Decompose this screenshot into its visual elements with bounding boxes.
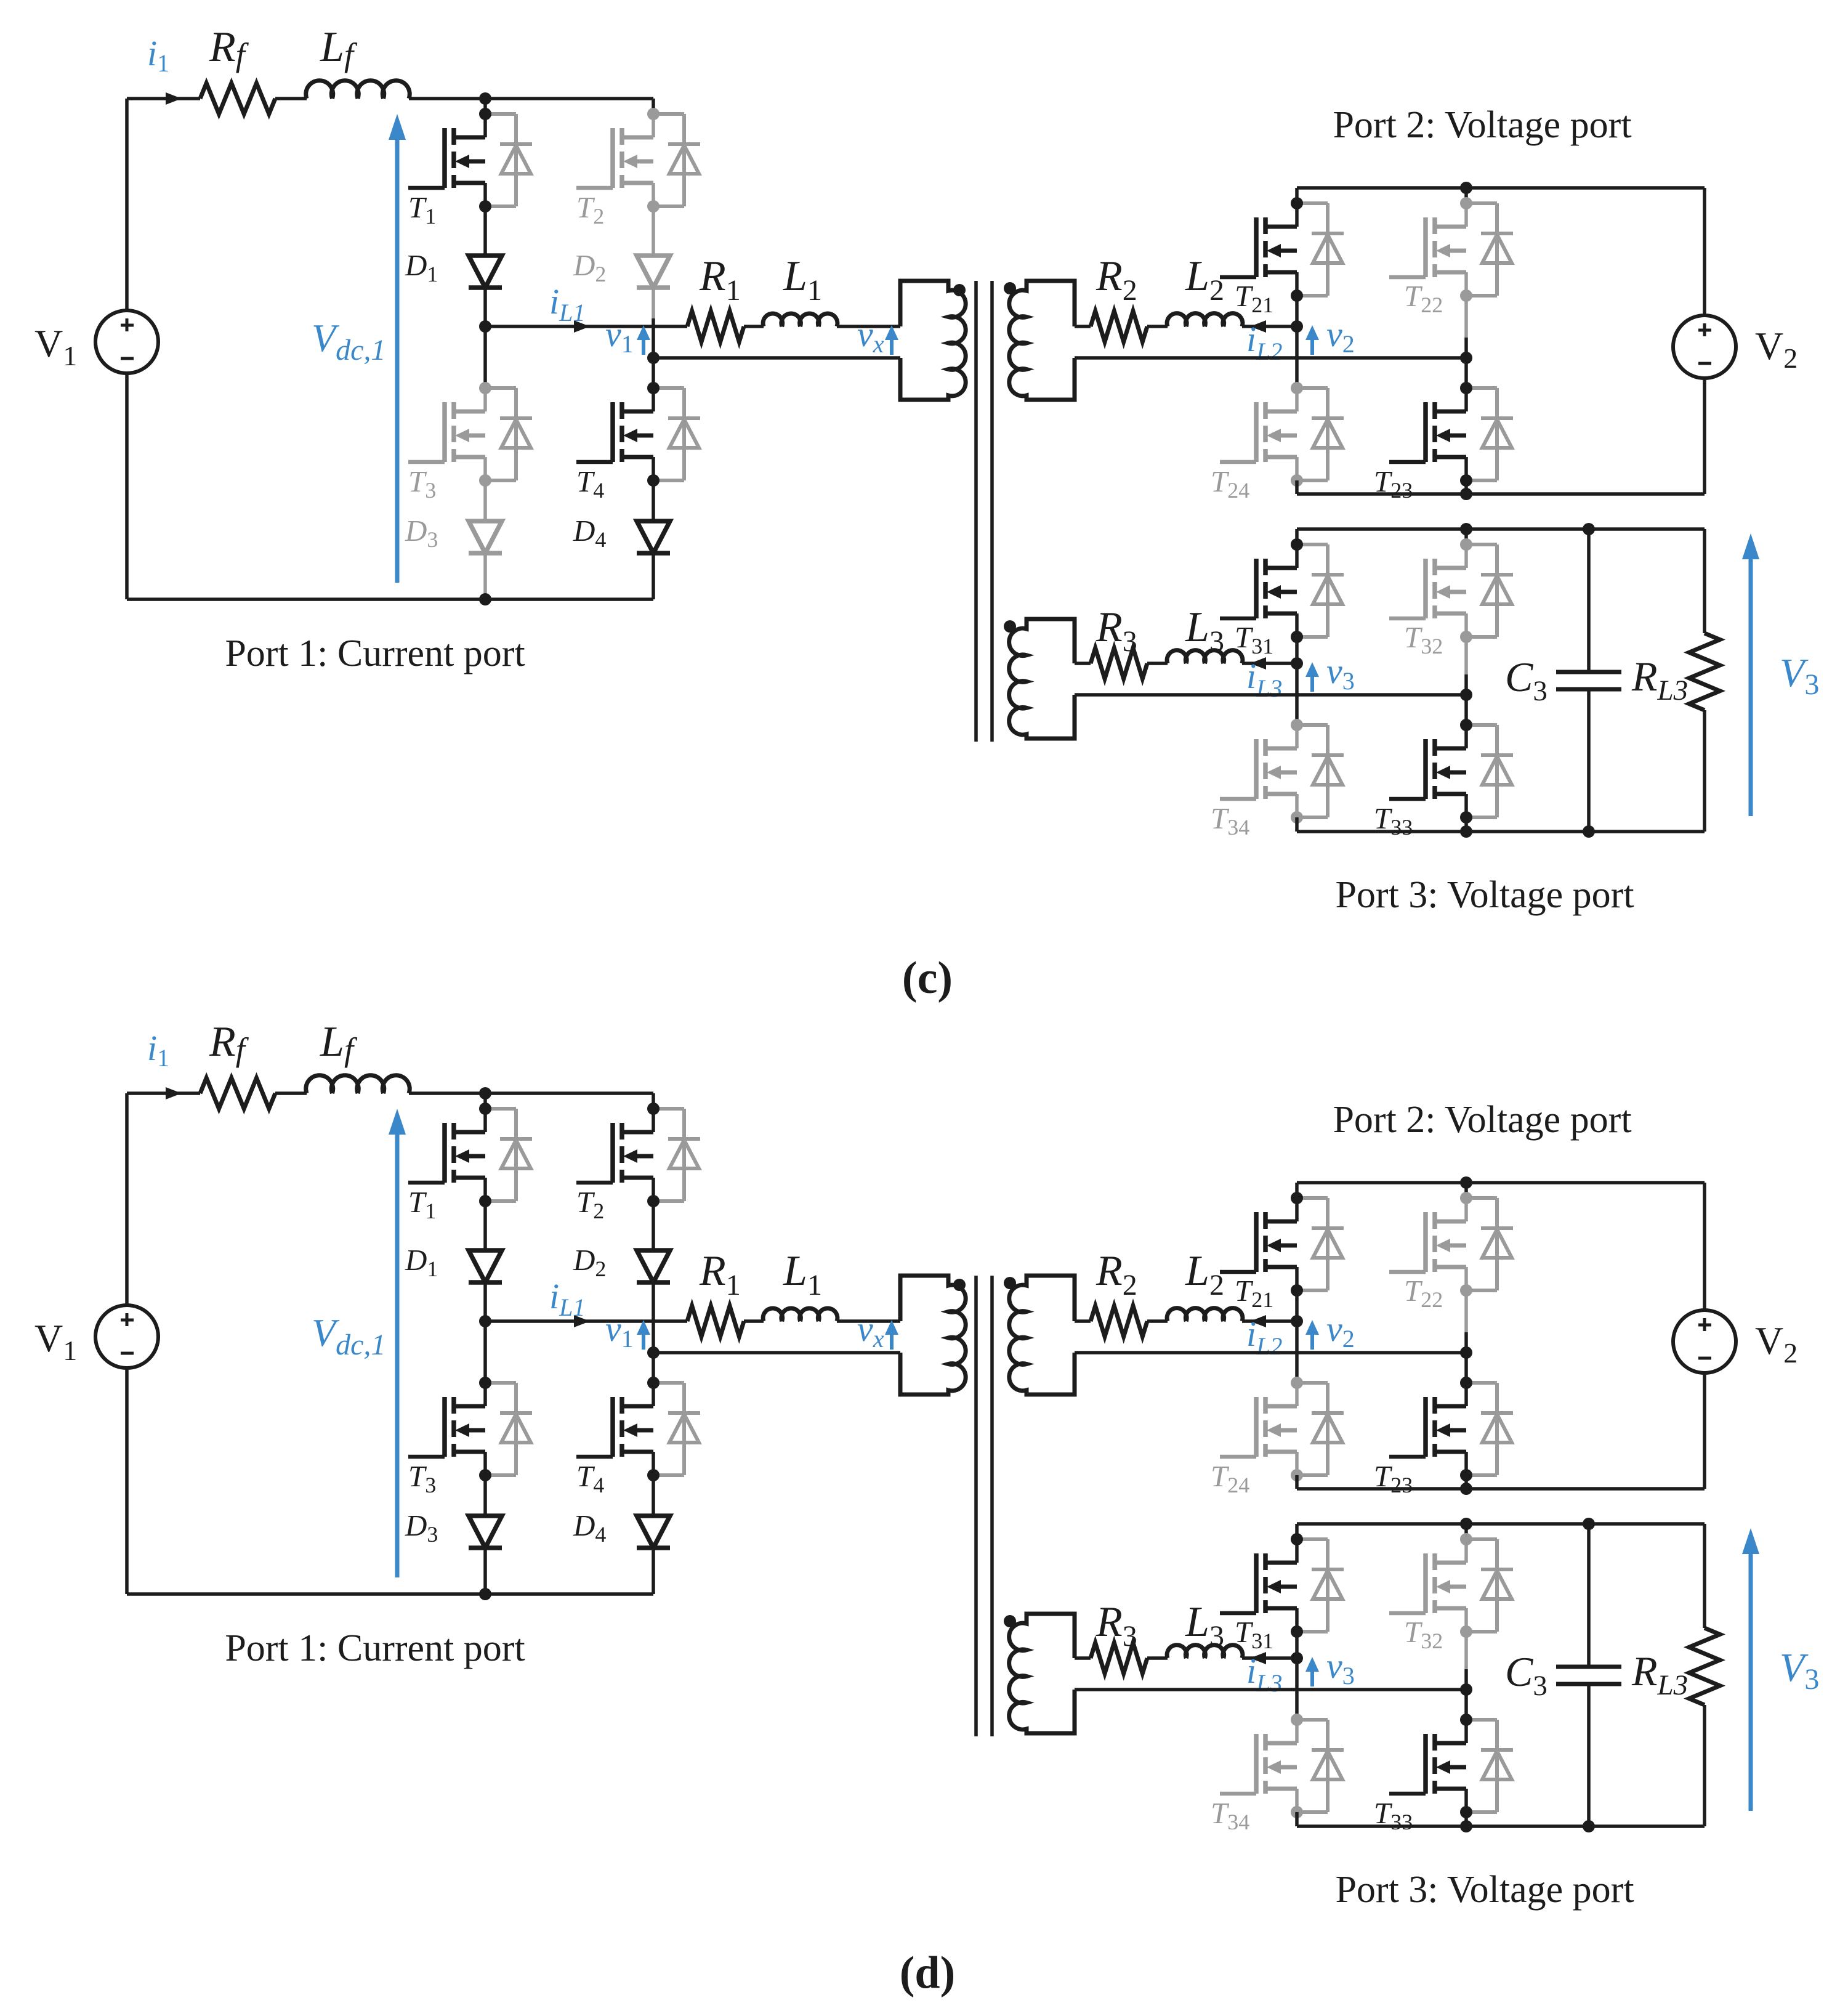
diode D1 c	[469, 256, 502, 288]
node bottom rail / C3 (c)	[1583, 825, 1595, 838]
wire T1 source to D1 (c)	[483, 206, 487, 256]
wire V2 branch top (c)	[1703, 188, 1706, 315]
svg-text:Port 3: Voltage port: Port 3: Voltage port	[1335, 874, 1634, 916]
wire V1 to bottom rail (d)	[125, 1368, 129, 1594]
node top rail / C3 (c)	[1583, 523, 1595, 535]
wire node iL3 to T34 (c)	[1295, 663, 1299, 725]
wire top rail port1 (d)	[127, 1091, 200, 1095]
secondary 2 polarity dot (d)	[1004, 1277, 1016, 1289]
resistor Rf (d)	[200, 1078, 275, 1109]
wire leg2 top lead (d)	[652, 1093, 655, 1109]
voltage arrow v3 (c)	[1310, 674, 1314, 692]
secondary 3 polarity dot (d)	[1004, 1615, 1016, 1627]
wire T23 source to bottom rail (d)	[1464, 1475, 1468, 1489]
voltage arrow v1 (d)	[642, 1332, 645, 1350]
node top rail / leg1 (d)	[479, 1087, 491, 1099]
node iL2 junction (c)	[1291, 320, 1303, 333]
node bottom rail / leg T33 (d)	[1460, 1820, 1472, 1832]
wire node v1 to T4 (d)	[652, 1353, 655, 1383]
wire D2 to node v1 (c)	[652, 288, 655, 318]
current arrow iL1 (d)	[574, 1315, 590, 1327]
wire leg2 top lead (c)	[652, 99, 655, 114]
capacitor C3 (c)	[1556, 529, 1621, 832]
diode D4 c	[637, 521, 670, 553]
wire node iL2 to T24 (c)	[1295, 326, 1299, 388]
voltage arrow vx (c)	[890, 338, 894, 355]
transistor T32 d	[1389, 1533, 1513, 1638]
transistor T1 d	[408, 1103, 532, 1207]
capacitor C3 (d)	[1556, 1524, 1621, 1826]
voltage source V1 (d)	[95, 1305, 158, 1368]
wire node A to T3 (c)	[483, 326, 487, 388]
wire T31 source to node iL3 (d)	[1295, 1632, 1299, 1658]
transistor T32 c	[1389, 538, 1513, 643]
resistor RL3 (c)	[1689, 529, 1720, 832]
wire top rail port2 (d)	[1297, 1181, 1705, 1184]
wire node v1 to T4 (c)	[652, 358, 655, 388]
diode D4 d	[637, 1516, 670, 1548]
transistor T3 c	[408, 382, 532, 487]
wire T32 top lead (d)	[1464, 1524, 1468, 1539]
transistor T2 c	[576, 108, 700, 213]
svg-text:Port 2: Voltage port: Port 2: Voltage port	[1333, 1099, 1631, 1141]
resistor R3 (d)	[1091, 1643, 1147, 1674]
wire V1 to top rail (d)	[125, 1093, 129, 1305]
transistor T3 d	[408, 1377, 532, 1481]
wire v1 node to transformer return (c)	[653, 356, 900, 360]
transformer secondary winding 2 (c)	[1009, 281, 1075, 400]
node bottom rail / leg1 (c)	[479, 593, 491, 605]
inductor L3 (d)	[1167, 1645, 1243, 1658]
current arrow i1 (c)	[166, 92, 182, 105]
node top rail / leg T32 (c)	[1460, 523, 1472, 535]
svg-text:Port 1: Current port: Port 1: Current port	[225, 1627, 525, 1669]
node top rail / C3 (d)	[1583, 1518, 1595, 1530]
transistor T23 d	[1389, 1377, 1513, 1481]
wire bottom rail port1 (d)	[127, 1592, 653, 1596]
node v1 (d)	[647, 1346, 660, 1359]
node v2 junction (d)	[1460, 1346, 1472, 1359]
wire V2 branch bottom (d)	[1703, 1373, 1706, 1489]
inductor L1 (d)	[763, 1308, 837, 1321]
wire node A to T3 (d)	[483, 1321, 487, 1383]
transistor T24 c	[1220, 382, 1344, 487]
transistor T31 c	[1220, 538, 1344, 643]
current arrow iL2 (d)	[1250, 1315, 1266, 1327]
wire node iL3 to T34 (d)	[1295, 1658, 1299, 1720]
diode D3 d	[469, 1516, 502, 1548]
wire iL1 node A to R1 (d)	[485, 1319, 687, 1323]
voltage arrow Vdc,1 (c)	[395, 137, 400, 583]
wire winding3 return to leg T32 (d)	[1075, 1688, 1466, 1691]
resistor R1 (d)	[687, 1306, 744, 1337]
wire T1 source to D1 (d)	[483, 1201, 487, 1250]
wire T4 source to D4 (c)	[652, 480, 655, 521]
secondary 2 polarity dot (c)	[1004, 282, 1016, 294]
inductor L2 (d)	[1167, 1308, 1243, 1321]
node v1 (c)	[647, 352, 660, 364]
wire bottom rail port1 (c)	[127, 597, 653, 601]
voltage source V2 (d)	[1673, 1310, 1736, 1373]
primary polarity dot (d)	[953, 1279, 966, 1291]
wire top rail port3 (d)	[1297, 1522, 1705, 1526]
resistor R3 (c)	[1091, 648, 1147, 679]
inductor Lf (c)	[306, 81, 410, 99]
inductor L1 (c)	[763, 314, 837, 326]
wire T22 top lead (c)	[1464, 188, 1468, 203]
node bottom rail / leg T23 (d)	[1460, 1483, 1472, 1495]
wire bottom rail port2 (d)	[1297, 1487, 1705, 1491]
node bottom rail / C3 (d)	[1583, 1820, 1595, 1832]
diode D3 c	[469, 521, 502, 553]
resistor R2 (c)	[1091, 311, 1147, 342]
diode D2 d	[637, 1250, 670, 1282]
transformer secondary winding 3 (c)	[1009, 619, 1075, 739]
node v2 junction (c)	[1460, 352, 1472, 364]
voltage arrow Vdc,1 (d)	[395, 1132, 400, 1577]
node bottom rail / leg T33 (c)	[1460, 825, 1472, 838]
resistor RL3 (d)	[1689, 1524, 1720, 1826]
svg-text:Port 3: Voltage port: Port 3: Voltage port	[1335, 1869, 1634, 1911]
transformer core (c)	[974, 281, 978, 742]
voltage arrow v2 (d)	[1310, 1332, 1314, 1350]
wire bottom rail port3 (c)	[1297, 830, 1705, 833]
svg-text:(c): (c)	[902, 953, 953, 1003]
wire winding2 to R2 (c)	[1075, 325, 1091, 328]
voltage arrow V3 (d)	[1749, 1552, 1753, 1811]
wire T32 top lead (c)	[1464, 529, 1468, 544]
wire L1 to transformer (c)	[837, 325, 900, 328]
wire winding3 to R3 (c)	[1075, 662, 1091, 665]
secondary 3 polarity dot (c)	[1004, 620, 1016, 633]
wire L3 to leg T31 (d)	[1242, 1656, 1297, 1660]
node iL3 junction (d)	[1291, 1652, 1303, 1664]
wire T34 source to bottom rail (c)	[1295, 817, 1299, 832]
inductor Lf (d)	[306, 1075, 410, 1093]
diode D1 d	[469, 1250, 502, 1282]
wire winding2 return to leg T22 (d)	[1075, 1351, 1466, 1354]
wire bottom rail port2 (c)	[1297, 492, 1705, 496]
transistor T22 d	[1389, 1192, 1513, 1297]
current arrow iL3 (d)	[1250, 1652, 1266, 1664]
current arrow iL1 (c)	[574, 320, 590, 333]
voltage arrow v2 (c)	[1310, 338, 1314, 355]
wire node iL2 to T24 (d)	[1295, 1321, 1299, 1383]
wire T33 source to bottom rail (d)	[1464, 1812, 1468, 1826]
transistor T2 d	[576, 1103, 700, 1207]
wire bottom rail port3 (d)	[1297, 1824, 1705, 1828]
wire D3 to bottom rail (d)	[483, 1547, 487, 1594]
wire winding2 return to leg T22 (c)	[1075, 356, 1466, 360]
wire leg1 top lead (c)	[483, 99, 487, 114]
wire node v3 to T33 (d)	[1464, 1690, 1468, 1720]
wire T22 top lead (d)	[1464, 1183, 1468, 1198]
transistor T33 c	[1389, 719, 1513, 824]
transistor T4 c	[576, 382, 700, 487]
voltage arrow V3 (c)	[1749, 557, 1753, 816]
wire T32 source to node v3 (d)	[1464, 1632, 1468, 1669]
transformer primary winding (c)	[900, 281, 966, 400]
wire T3 source to D3 (d)	[483, 1475, 487, 1516]
wire T31 top lead (d)	[1295, 1524, 1299, 1539]
wire T2 source to D2 (c)	[652, 206, 655, 256]
wire D4 to bottom rail (d)	[652, 1547, 655, 1594]
wire v1 node to transformer return (d)	[653, 1351, 900, 1354]
node A leg1 midpoint (d)	[479, 1315, 491, 1327]
node A leg1 midpoint (c)	[479, 320, 491, 333]
transformer secondary winding 2 (d)	[1009, 1276, 1075, 1395]
wire T33 source to bottom rail (c)	[1464, 817, 1468, 832]
wire T21 top lead (c)	[1295, 188, 1299, 203]
wire iL1 node A to R1 (c)	[485, 325, 687, 328]
wire T21 source to node iL2 (d)	[1295, 1290, 1299, 1321]
transistor T31 d	[1220, 1533, 1344, 1638]
wire D2 to node v1 (d)	[652, 1282, 655, 1313]
wire winding2 to R2 (d)	[1075, 1319, 1091, 1323]
wire D1 to node A (d)	[483, 1282, 487, 1321]
primary polarity dot (c)	[953, 284, 966, 296]
wire top rail port1 (c)	[127, 97, 200, 100]
resistor Rf (c)	[200, 83, 275, 114]
wire winding3 to R3 (d)	[1075, 1656, 1091, 1660]
voltage arrow v3 (d)	[1310, 1669, 1314, 1686]
wire T22 source to node v2 (c)	[1464, 296, 1468, 338]
wire T34 source to bottom rail (d)	[1295, 1812, 1299, 1826]
current arrow iL3 (c)	[1250, 657, 1266, 670]
wire V2 branch bottom (c)	[1703, 378, 1706, 494]
wire top rail port2 (c)	[1297, 186, 1705, 190]
voltage source V1 (c)	[95, 310, 158, 373]
diode D2 c	[637, 256, 670, 288]
node top rail / leg T22 (d)	[1460, 1176, 1472, 1189]
node iL3 junction (c)	[1291, 657, 1303, 670]
wire node v2 to T23 (c)	[1464, 358, 1468, 388]
transistor T34 c	[1220, 719, 1344, 824]
wire T23 source to bottom rail (c)	[1464, 480, 1468, 494]
wire leg1 top lead (d)	[483, 1093, 487, 1109]
node iL2 junction (d)	[1291, 1315, 1303, 1327]
node v3 junction (d)	[1460, 1683, 1472, 1696]
wire T3 source to D3 (c)	[483, 480, 487, 521]
wire T21 source to node iL2 (c)	[1295, 296, 1299, 326]
wire node v2 to T23 (d)	[1464, 1353, 1468, 1383]
node bottom rail / leg T23 (c)	[1460, 488, 1472, 500]
current arrow iL2 (c)	[1250, 320, 1266, 333]
transistor T33 d	[1389, 1714, 1513, 1818]
wire top rail port3 (c)	[1297, 527, 1705, 531]
current arrow i1 (d)	[166, 1087, 182, 1099]
voltage arrow vx (d)	[890, 1332, 894, 1350]
wire T2 source to D2 (d)	[652, 1201, 655, 1250]
wire R1 to L1 (c)	[744, 325, 764, 328]
wire V1 to bottom rail (c)	[125, 373, 129, 599]
node bottom rail / leg1 (d)	[479, 1588, 491, 1600]
transistor T23 c	[1389, 382, 1513, 487]
svg-text:Port 2: Voltage port: Port 2: Voltage port	[1333, 104, 1631, 146]
voltage source V2 (c)	[1673, 315, 1736, 378]
inductor L2 (c)	[1167, 314, 1243, 326]
wire T31 top lead (c)	[1295, 529, 1299, 544]
svg-text:(d): (d)	[900, 1948, 955, 1998]
voltage arrow v1 (c)	[642, 338, 645, 355]
wire T24 source to bottom rail (d)	[1295, 1475, 1299, 1489]
transformer primary winding (d)	[900, 1276, 966, 1395]
wire R3 to L3 (d)	[1147, 1656, 1168, 1660]
svg-text:Port 1: Current port: Port 1: Current port	[225, 633, 525, 674]
wire R1 to L1 (d)	[744, 1319, 764, 1323]
inductor L3 (c)	[1167, 650, 1243, 663]
node top rail / leg T32 (d)	[1460, 1518, 1472, 1530]
transistor T21 d	[1220, 1192, 1344, 1297]
wire V1 to top rail (c)	[125, 99, 129, 310]
wire R2 to L2 (c)	[1147, 325, 1168, 328]
node top rail / leg T22 (c)	[1460, 182, 1472, 194]
wire D1 to node A (c)	[483, 288, 487, 326]
transformer secondary winding 3 (d)	[1009, 1614, 1075, 1733]
transistor T22 c	[1389, 197, 1513, 302]
wire L2 to leg T21 (d)	[1242, 1319, 1297, 1323]
wire winding3 return to leg T32 (c)	[1075, 693, 1466, 697]
wire L1 to transformer (d)	[837, 1319, 900, 1323]
wire T32 source to node v3 (c)	[1464, 637, 1468, 674]
wire T21 top lead (d)	[1295, 1183, 1299, 1198]
wire R2 to L2 (d)	[1147, 1319, 1168, 1323]
transistor T34 d	[1220, 1714, 1344, 1818]
wire node v3 to T33 (c)	[1464, 695, 1468, 725]
transistor T1 c	[408, 108, 532, 213]
wire L3 to leg T31 (c)	[1242, 662, 1297, 665]
resistor R1 (c)	[687, 311, 744, 342]
transformer core (d)	[974, 1276, 978, 1736]
node top rail / leg1 (c)	[479, 92, 491, 105]
transistor T4 d	[576, 1377, 700, 1481]
transistor T21 c	[1220, 197, 1344, 302]
wire T22 source to node v2 (d)	[1464, 1290, 1468, 1332]
wire R3 to L3 (c)	[1147, 662, 1168, 665]
wire L2 to leg T21 (c)	[1242, 325, 1297, 328]
wire T24 source to bottom rail (c)	[1295, 480, 1299, 494]
wire T31 source to node iL3 (c)	[1295, 637, 1299, 663]
wire V2 branch top (d)	[1703, 1183, 1706, 1310]
node v3 junction (c)	[1460, 689, 1472, 701]
transistor T24 d	[1220, 1377, 1344, 1481]
wire T4 source to D4 (d)	[652, 1475, 655, 1516]
resistor R2 (d)	[1091, 1306, 1147, 1337]
wire D4 to bottom rail (c)	[652, 552, 655, 599]
wire D3 to bottom rail (c)	[483, 552, 487, 599]
